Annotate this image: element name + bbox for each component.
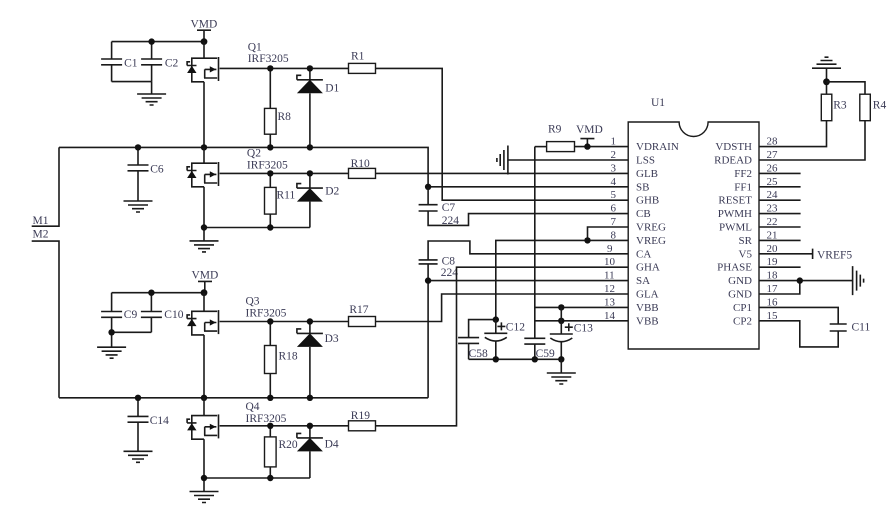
wire phase-B node rail (59, 147, 428, 186)
svg-text:R17: R17 (349, 304, 368, 316)
power flag VMD (top) (191, 19, 218, 42)
wire pin23 stub (759, 213, 801, 215)
svg-text:R3: R3 (833, 100, 847, 112)
capacitor C59 (524, 338, 555, 360)
junction VREG pins (584, 237, 590, 243)
pin 16 label CP1 (733, 296, 778, 314)
capacitor C1 (101, 42, 138, 82)
pin 18 label GND (728, 270, 778, 288)
junction R11 top (267, 170, 273, 176)
svg-text:R19: R19 (351, 410, 370, 422)
ground (under C6) (124, 201, 153, 212)
pin 28 label VDSTH (715, 136, 778, 154)
junction VMD pin1 (584, 143, 590, 149)
wire C9-C10 bottom (112, 331, 152, 333)
junction R8 bottom (267, 144, 273, 150)
pin 5 label GHB (611, 189, 660, 207)
svg-text:9: 9 (607, 243, 613, 255)
diode D4 (297, 426, 339, 478)
wire pin22 stub (759, 226, 801, 228)
svg-text:VBB: VBB (636, 315, 659, 327)
svg-text:VDRAIN: VDRAIN (636, 141, 679, 153)
ground (decoupling) (547, 359, 576, 384)
svg-text:M2: M2 (33, 228, 49, 240)
junction C13 branch pin13 (558, 304, 564, 310)
junction R20 bottom (267, 475, 273, 481)
svg-text:R9: R9 (548, 124, 562, 136)
wire pin7 VREG link (588, 227, 629, 240)
capacitor C2 (141, 42, 178, 82)
wire C58 branch (469, 320, 496, 338)
svg-text:C8: C8 (442, 256, 456, 268)
resistor R1 (349, 51, 376, 74)
node VREF5 (pin20) (759, 249, 852, 262)
wire C1-C2 bottom (112, 81, 152, 83)
svg-text:VMD: VMD (191, 19, 218, 31)
capacitor C7 224 (419, 187, 460, 227)
svg-text:C6: C6 (150, 164, 164, 176)
wire pin25 stub (759, 186, 801, 188)
wire R4 to pin27 (759, 121, 865, 160)
junction R3/R4 top (823, 78, 830, 85)
pin 9 label CA (607, 243, 651, 260)
pin 7 label VREG (611, 216, 667, 234)
junction R18 bottom (267, 395, 273, 401)
wire R17 to pin12 GLA (376, 294, 629, 322)
wire Q1 gate rail (220, 67, 349, 69)
pin 13 label VBB (604, 296, 659, 314)
pin 21 label SR (739, 229, 778, 247)
pin 20 label V5 (739, 243, 778, 260)
junction D2 top (307, 170, 313, 176)
svg-text:C14: C14 (150, 415, 169, 427)
pin 19 label PHASE (717, 256, 778, 274)
wire C8 bottom / SA line to pin11 (428, 264, 628, 281)
capacitor C58 (458, 338, 488, 360)
svg-text:4: 4 (611, 176, 617, 188)
svg-text:FF2: FF2 (734, 168, 752, 180)
svg-text:D3: D3 (325, 333, 339, 345)
ground (under C9) (97, 332, 126, 358)
junction D3 bottom (307, 395, 313, 401)
svg-text:RDEAD: RDEAD (714, 155, 752, 167)
svg-text:CB: CB (636, 208, 651, 220)
ground (under C14) (124, 451, 153, 462)
capacitor C9 (101, 293, 137, 333)
resistor R4 (860, 94, 887, 121)
ground (under C2) (137, 82, 166, 105)
pin 27 label RDEAD (714, 149, 778, 167)
wire Q4 source rail (204, 477, 310, 479)
junction VMD/Q3 drain (201, 289, 208, 296)
svg-text:R11: R11 (277, 190, 296, 202)
wire Q2 gate rail to pin3 GLB (220, 172, 629, 174)
transistor Q4 IRF3205 (187, 398, 287, 478)
svg-text:C1: C1 (124, 58, 138, 70)
svg-text:VMD: VMD (192, 270, 219, 282)
svg-text:C2: C2 (165, 58, 179, 70)
svg-text:SA: SA (636, 275, 650, 287)
svg-text:C11: C11 (852, 322, 871, 334)
svg-text:C13: C13 (574, 323, 593, 335)
junction C12 bottom (493, 356, 499, 362)
pin 26 label FF2 (734, 162, 778, 180)
resistor R18 (265, 322, 298, 398)
junction R20 top (267, 423, 273, 429)
svg-text:3: 3 (611, 162, 617, 174)
wire pin24 stub (759, 199, 801, 201)
svg-text:D2: D2 (325, 186, 339, 198)
resistor R17 (349, 304, 376, 327)
wire top link to R4 (827, 82, 866, 94)
junction C59 bottom (532, 356, 538, 362)
svg-text:PWML: PWML (719, 222, 752, 234)
pin 17 label GND (728, 283, 778, 301)
wire pin18 GND line (759, 280, 853, 282)
power flag VMD (lower) (192, 270, 219, 293)
svg-text:D4: D4 (325, 439, 339, 451)
svg-text:C7: C7 (442, 202, 456, 214)
resistor R20 (265, 426, 298, 478)
pin 22 label PWML (719, 216, 778, 234)
junction Q2 drain (201, 144, 207, 150)
svg-text:LSS: LSS (636, 155, 655, 167)
connector M2 (32, 228, 59, 397)
svg-text:GND: GND (728, 275, 752, 287)
svg-text:FF1: FF1 (734, 181, 752, 193)
resistor R8 (265, 68, 292, 147)
wire pin19 stub (759, 266, 801, 268)
wire R19 to pin10 GHA (376, 267, 629, 426)
capacitor C8 224 (419, 256, 459, 280)
resistor R10 (349, 158, 376, 178)
svg-text:RESET: RESET (718, 195, 752, 207)
pin 11 label SA (604, 270, 650, 288)
svg-text:IRF3205: IRF3205 (246, 413, 287, 425)
svg-text:C12: C12 (506, 322, 525, 334)
junction C9 bottom (108, 329, 114, 335)
wire pin8 VREG line (496, 240, 628, 319)
capacitor C12 (polarized) (484, 320, 525, 360)
svg-text:C9: C9 (124, 309, 138, 321)
capacitor C6 (128, 147, 164, 201)
junction GND pins (797, 277, 803, 283)
junction Q4 source (201, 475, 207, 481)
resistor R9 (535, 124, 628, 152)
wire R3 top to junction (826, 82, 828, 94)
capacitor C11 (830, 322, 871, 334)
junction C10 top (148, 290, 154, 296)
svg-text:R20: R20 (279, 439, 298, 451)
wire VMD top rail (112, 41, 204, 43)
pin 25 label FF1 (734, 176, 778, 194)
junction Q2 source (201, 224, 207, 230)
junction D1 top (307, 65, 313, 71)
wire VMD lower rail (112, 292, 205, 294)
pin 4 label SB (611, 176, 650, 194)
svg-text:C58: C58 (469, 348, 488, 360)
svg-text:GHA: GHA (636, 262, 660, 274)
junction Q4 drain (201, 395, 207, 401)
svg-text:Q3: Q3 (246, 296, 260, 308)
svg-text:GLA: GLA (636, 289, 659, 301)
junction R11 bottom (267, 224, 273, 230)
svg-text:10: 10 (604, 256, 616, 268)
junction D4 top (307, 423, 313, 429)
svg-text:VREG: VREG (636, 235, 666, 247)
pin 8 label VREG (611, 229, 667, 247)
junction R18 top (267, 318, 273, 324)
wire VBB feed riser (534, 147, 536, 339)
svg-text:11: 11 (604, 270, 615, 282)
svg-text:VMD: VMD (576, 124, 603, 136)
svg-text:R1: R1 (351, 51, 365, 63)
capacitor C14 (128, 398, 170, 452)
resistor R19 (349, 410, 376, 431)
wire C7 bottom to pin6 CB (428, 211, 628, 225)
svg-text:R8: R8 (278, 111, 292, 123)
svg-text:12: 12 (604, 283, 615, 295)
svg-text:R10: R10 (351, 158, 370, 170)
svg-text:SR: SR (739, 235, 753, 247)
junction C2 top (148, 38, 154, 44)
svg-text:VBB: VBB (636, 302, 659, 314)
svg-text:GHB: GHB (636, 195, 659, 207)
wire Q3 gate rail (220, 321, 349, 323)
wire pin14 VBB line (535, 320, 628, 322)
resistor R3 (821, 94, 847, 121)
svg-text:5: 5 (611, 189, 617, 201)
wire pin16 CP1 to C11 (759, 307, 838, 324)
junction C13 bottom (558, 356, 564, 362)
power flag VMD (chip) (576, 124, 603, 147)
wire C8 top to pin9 CA (428, 241, 628, 260)
ground (pin2 LSS, sideways) (497, 146, 628, 175)
wire Q4 gate rail (220, 425, 349, 427)
svg-text:IRF3205: IRF3205 (247, 160, 288, 172)
wire pin21 stub (759, 239, 801, 241)
ground (pin18, sideways) (853, 266, 864, 295)
junction C13 branch pin14 (558, 318, 564, 324)
svg-text:GND: GND (728, 289, 752, 301)
junction SA node (425, 277, 431, 283)
transistor Q1 IRF3205 (187, 42, 289, 148)
resistor R11 (265, 173, 296, 227)
connector M1 (32, 147, 59, 227)
junction SB node (425, 184, 431, 190)
svg-text:Q2: Q2 (247, 148, 261, 160)
transistor Q2 IRF3205 (187, 147, 288, 227)
junction VMD/Q1 drain (201, 38, 208, 45)
svg-text:U1: U1 (651, 97, 665, 109)
svg-text:VREG: VREG (636, 222, 666, 234)
wire pin28 to R3 (759, 121, 827, 147)
ground (above R3, inverted) (812, 57, 841, 82)
pin 23 label PWMH (718, 203, 778, 221)
junction D3 top (307, 318, 313, 324)
svg-text:R18: R18 (279, 351, 298, 363)
pin 24 label RESET (718, 189, 778, 207)
svg-text:CA: CA (636, 248, 651, 260)
pin 6 label CB (611, 203, 651, 221)
wire R1 to GHB riser (376, 68, 629, 200)
wire SA riser to phase-A rail (427, 281, 429, 398)
ground (Q4 source) (190, 478, 219, 503)
diode D2 (297, 173, 340, 227)
svg-text:CP2: CP2 (733, 315, 752, 327)
pin 15 label CP2 (733, 310, 778, 328)
pin 12 label GLA (604, 283, 659, 301)
svg-text:IRF3205: IRF3205 (246, 308, 287, 320)
wire phase-A node rail (59, 397, 428, 399)
svg-text:C59: C59 (536, 348, 555, 360)
transistor Q3 IRF3205 (187, 293, 287, 398)
junction C14 top (135, 395, 141, 401)
svg-text:R4: R4 (873, 100, 887, 112)
wire pin13 VBB line (535, 306, 628, 308)
pin 3 label GLB (611, 162, 659, 180)
wire Q2 source rail (204, 227, 310, 229)
ground (Q2 source) (190, 228, 219, 252)
svg-text:D1: D1 (325, 83, 339, 95)
svg-text:224: 224 (441, 267, 459, 279)
svg-text:Q4: Q4 (246, 401, 260, 413)
wire decoupling bottom rail (469, 358, 562, 360)
svg-text:SB: SB (636, 181, 649, 193)
wire pin17 GND link (759, 281, 800, 294)
pin 10 label GHA (604, 256, 660, 274)
svg-text:PWMH: PWMH (718, 208, 752, 220)
svg-text:C10: C10 (164, 309, 183, 321)
svg-text:VDSTH: VDSTH (715, 141, 752, 153)
junction D1 bottom (307, 144, 313, 150)
wire SB line to pin4 (428, 186, 628, 188)
op-amp U1 body (628, 97, 759, 349)
junction C6 top (135, 144, 141, 150)
svg-text:V5: V5 (739, 248, 753, 260)
svg-text:Q1: Q1 (248, 42, 262, 54)
svg-text:GLB: GLB (636, 168, 658, 180)
pin 1 label VDRAIN (611, 136, 679, 154)
diode D1 (297, 68, 340, 147)
wire pin15 CP2 to C11 bottom (759, 321, 838, 347)
capacitor C10 (141, 293, 184, 333)
svg-text:PHASE: PHASE (717, 262, 752, 274)
svg-text:VREF5: VREF5 (817, 250, 852, 262)
svg-text:IRF3205: IRF3205 (248, 53, 289, 65)
wire pin26 stub (759, 172, 801, 174)
junction R8 top (267, 65, 273, 71)
junction C12 top (493, 316, 499, 322)
pin 2 label LSS (611, 149, 655, 167)
svg-text:CP1: CP1 (733, 302, 752, 314)
diode D3 (297, 322, 339, 398)
svg-text:6: 6 (611, 203, 617, 215)
pin 14 label VBB (604, 310, 659, 328)
capacitor C13 (polarized) (550, 307, 593, 359)
